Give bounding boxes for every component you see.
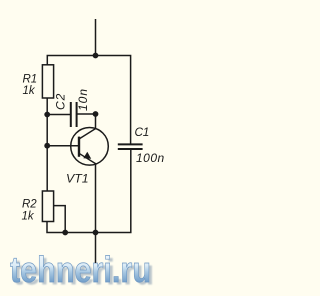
transistor VT1 — [71, 128, 109, 166]
svg-text:R2: R2 — [22, 199, 37, 211]
capacitor C1 — [118, 144, 143, 149]
wire bottom terminal — [95, 233, 97, 264]
wire C2 right lead — [77, 113, 95, 115]
node B base junction — [44, 143, 50, 149]
svg-text:R1: R1 — [23, 74, 38, 86]
capacitor C2 — [71, 102, 77, 127]
svg-text:1k: 1k — [22, 211, 35, 223]
wire R2 tap — [54, 206, 66, 233]
label R1 value — [23, 74, 38, 98]
node emitter rail junction — [93, 230, 99, 236]
wire collector — [95, 114, 97, 129]
watermark tehneri.ru — [10, 249, 154, 293]
label R2 value — [22, 199, 38, 223]
wire C2 left lead — [47, 114, 70, 116]
wire left column — [46, 98, 48, 191]
wire base — [47, 145, 79, 147]
wire top rail — [47, 56, 130, 145]
label C2 value — [54, 88, 91, 111]
node tap junction — [62, 230, 68, 236]
label C1 value — [135, 125, 165, 165]
svg-text:C1: C1 — [135, 125, 149, 139]
resistor R2 — [42, 191, 53, 222]
svg-text:tehneri.ru: tehneri.ru — [10, 249, 151, 290]
svg-text:VT1: VT1 — [66, 172, 89, 186]
wire top terminal — [95, 19, 97, 56]
svg-text:1k: 1k — [23, 85, 36, 97]
node A R1/C2 junction — [44, 112, 50, 118]
svg-text:C2: C2 — [54, 93, 68, 110]
resistor R1 — [42, 65, 53, 98]
svg-text:100n: 100n — [136, 151, 165, 165]
node top rail junction — [93, 53, 99, 59]
wire bottom rail — [47, 149, 131, 233]
node C2/collector junction — [93, 111, 99, 117]
wire emitter — [95, 163, 97, 233]
svg-text:10n: 10n — [76, 88, 90, 111]
